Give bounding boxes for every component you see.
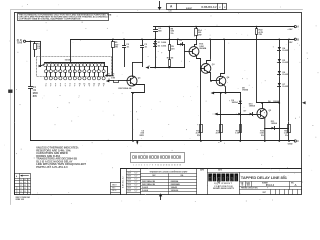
svg-text:1N645: 1N645 — [171, 186, 178, 189]
svg-text:DEC2894-3B: DEC2894-3B — [142, 180, 155, 183]
svg-text:5%: 5% — [171, 33, 174, 35]
svg-text:+10V: +10V — [287, 29, 293, 31]
svg-text:11: 11 — [160, 165, 162, 167]
svg-text:(C 2): (C 2) — [17, 40, 22, 42]
svg-text:D-BS-851-0-2: D-BS-851-0-2 — [202, 6, 218, 9]
svg-text:COPYRIGHT 1960 BY DIGITAL EQUI: COPYRIGHT 1960 BY DIGITAL EQUIPMENT CORP… — [19, 17, 81, 20]
svg-text:851-0-2: 851-0-2 — [266, 184, 275, 187]
svg-text:BS: BS — [24, 185, 26, 187]
svg-text:DRB 102: DRB 102 — [16, 199, 25, 201]
svg-text:7-67: 7-67 — [134, 176, 137, 178]
svg-text:4: 4 — [28, 180, 29, 182]
svg-text:i: i — [222, 176, 224, 183]
svg-text:D2: D2 — [158, 45, 160, 47]
svg-text:13: 13 — [166, 165, 168, 167]
svg-text:1N994: 1N994 — [232, 101, 239, 104]
svg-text:DEC2894-3B: DEC2894-3B — [118, 87, 131, 90]
svg-text:D1: D1 — [158, 42, 160, 44]
svg-text:1.2: 1.2 — [20, 191, 22, 193]
svg-text:1.2: 1.2 — [20, 180, 22, 182]
svg-text:C: C — [297, 140, 299, 143]
svg-text:A: A — [294, 183, 296, 187]
svg-text:DIST: DIST — [263, 192, 267, 194]
svg-text:5%: 5% — [285, 135, 288, 137]
svg-text:D-662: D-662 — [283, 50, 289, 52]
svg-text:A: A — [297, 26, 299, 29]
svg-text:MFD: MFD — [33, 93, 38, 95]
svg-text:l: l — [235, 176, 237, 183]
svg-text:15: 15 — [171, 165, 173, 167]
svg-text:12: 12 — [163, 165, 165, 167]
svg-text:7-67: 7-67 — [134, 173, 137, 175]
svg-text:BS: BS — [24, 182, 26, 184]
svg-text:16: 16 — [174, 165, 176, 167]
svg-text:1N994: 1N994 — [249, 104, 256, 107]
svg-text:MFD: MFD — [140, 135, 145, 137]
svg-text:14: 14 — [168, 165, 170, 167]
svg-text:1N994: 1N994 — [242, 89, 249, 92]
svg-text:DEC2894-3B: DEC2894-3B — [142, 183, 155, 186]
svg-text:D-662: D-662 — [283, 74, 289, 76]
svg-text:18: 18 — [179, 165, 181, 167]
svg-text:1N994: 1N994 — [271, 122, 278, 125]
svg-text:TRANSISTOR & DIODE CONVERSION: TRANSISTOR & DIODE CONVERSION CHART — [150, 171, 189, 174]
svg-text:1.2: 1.2 — [20, 182, 22, 184]
svg-text:10: 10 — [157, 165, 159, 167]
svg-text:7-67: 7-67 — [134, 179, 137, 181]
svg-text:80V: 80V — [33, 96, 38, 98]
svg-text:7-67: 7-67 — [134, 190, 137, 192]
svg-text:1.5K: 1.5K — [235, 133, 240, 135]
svg-text:D-664: D-664 — [142, 189, 149, 192]
svg-text:i: i — [214, 176, 216, 183]
svg-text:PARTS LIST A-PL-851-0-0: PARTS LIST A-PL-851-0-0 — [36, 165, 68, 169]
svg-text:g: g — [217, 176, 221, 183]
svg-text:PRINTING: PRINTING — [17, 185, 19, 193]
svg-text:300MA: 300MA — [199, 47, 206, 50]
svg-text:CORPORATION: CORPORATION — [214, 185, 233, 188]
svg-text:15 DEL: 15 DEL — [65, 60, 73, 62]
svg-text:d: d — [208, 176, 212, 183]
svg-text:GND: GND — [288, 144, 293, 146]
svg-text:1N3606: 1N3606 — [171, 190, 179, 192]
svg-text:R10 68: R10 68 — [167, 58, 174, 60]
svg-text:DA6: DA6 — [17, 42, 22, 45]
svg-text:7-67: 7-67 — [134, 182, 137, 184]
svg-text:1N994: 1N994 — [273, 100, 280, 103]
svg-text:D-662: D-662 — [283, 62, 289, 64]
svg-text:4: 4 — [28, 185, 29, 187]
svg-text:5%: 5% — [261, 135, 264, 137]
svg-text:4.7K: 4.7K — [216, 132, 221, 135]
svg-text:-15V: -15V — [288, 42, 293, 44]
svg-text:SHEET: SHEET — [186, 8, 193, 10]
svg-text:D-662: D-662 — [283, 86, 289, 88]
svg-text:D3: D3 — [180, 40, 182, 42]
svg-text:BS: BS — [24, 188, 26, 190]
svg-text:4: 4 — [28, 182, 29, 184]
svg-text:PRINTED CIRCUIT REV.: PRINTED CIRCUIT REV. — [241, 188, 258, 190]
svg-text:B: B — [297, 38, 299, 41]
svg-text:BS: BS — [247, 185, 251, 187]
svg-text:TAPPED DELAY LINE 851: TAPPED DELAY LINE 851 — [241, 175, 288, 180]
svg-text:a: a — [230, 176, 234, 183]
svg-text:4: 4 — [28, 188, 29, 190]
svg-text:1.2: 1.2 — [20, 188, 22, 190]
svg-text:17: 17 — [177, 165, 179, 167]
svg-text:7-67: 7-67 — [134, 185, 137, 187]
svg-text:1.2: 1.2 — [20, 185, 22, 187]
svg-text:B-BS-851-0-2: B-BS-851-0-2 — [123, 176, 125, 188]
svg-text:BS: BS — [24, 191, 26, 193]
svg-text:BS: BS — [24, 180, 26, 182]
svg-text:2N2894: 2N2894 — [171, 180, 179, 183]
svg-text:7-67: 7-67 — [134, 188, 137, 190]
svg-text:4: 4 — [28, 191, 29, 193]
svg-text:2N2894B: 2N2894B — [171, 183, 181, 186]
svg-text:D-662: D-662 — [142, 187, 149, 189]
